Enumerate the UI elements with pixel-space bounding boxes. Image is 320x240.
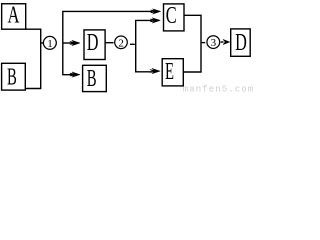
svg-text:E: E xyxy=(165,59,174,85)
svg-text:3: 3 xyxy=(211,37,217,49)
svg-text:B: B xyxy=(87,66,97,92)
svg-text:C: C xyxy=(166,3,177,29)
svg-text:1: 1 xyxy=(47,38,53,50)
svg-text:manfen5.com: manfen5.com xyxy=(183,85,254,94)
svg-text:2: 2 xyxy=(118,37,124,49)
svg-text:B: B xyxy=(7,64,17,90)
svg-text:A: A xyxy=(8,3,20,29)
svg-text:D: D xyxy=(87,30,99,56)
svg-text:D: D xyxy=(235,30,247,56)
